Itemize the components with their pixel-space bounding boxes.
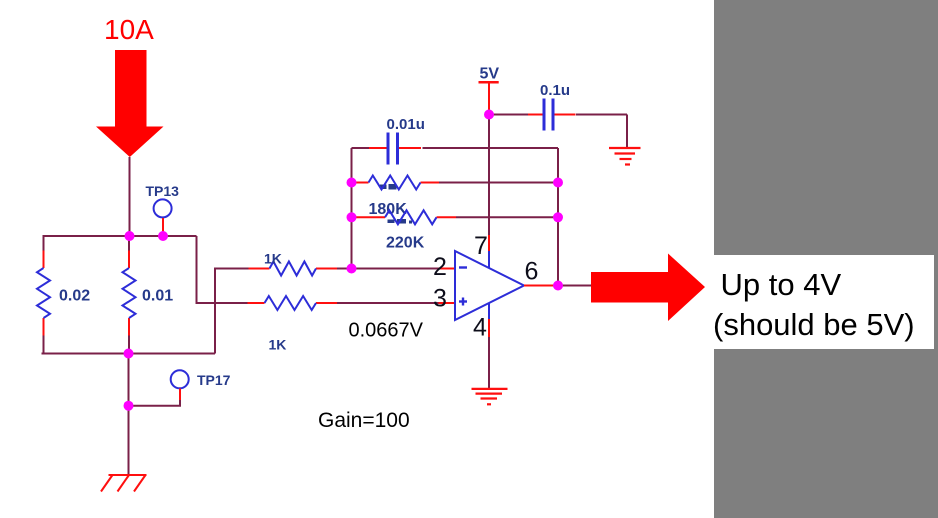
wire: node A down to pin3 run: [197, 236, 248, 303]
svg-text:0.0667V: 0.0667V: [349, 320, 424, 342]
hidden refdes under 220K: [388, 219, 413, 224]
test point TP17: [171, 370, 189, 388]
power 5V symbol: [479, 81, 499, 84]
svg-text:4: 4: [473, 314, 487, 342]
resistor R 0.02 body: [37, 268, 50, 318]
op-amp plus input mark: [459, 300, 467, 302]
TP13 stem wire: [162, 218, 164, 236]
junction right rail 220K: [553, 212, 563, 222]
resistor R 0.02 leads: [43, 236, 45, 251]
svg-text:0.1u: 0.1u: [540, 82, 570, 99]
feedback right rail: [557, 148, 559, 286]
resistor 180K leads: [352, 182, 369, 184]
TP17 stem wire: [179, 389, 181, 401]
svg-text:3: 3: [433, 285, 447, 313]
test point TP13: [154, 199, 172, 217]
svg-text:TP17: TP17: [197, 372, 231, 388]
resistor 220K body: [385, 210, 437, 224]
wire 180K to right rail: [439, 182, 558, 184]
wire 220K to right rail: [456, 216, 558, 218]
junction node B: [124, 349, 134, 359]
svg-text:180K: 180K: [369, 201, 408, 218]
wire 5V rail down to pin 7: [488, 115, 490, 236]
svg-text:(should be 5V): (should be 5V): [713, 307, 915, 342]
feedback left rail: [351, 148, 353, 269]
junction left rail 180K: [347, 178, 357, 188]
annotation white band: [714, 255, 934, 349]
svg-text:Gain=100: Gain=100: [318, 409, 410, 432]
wire: node B up to pin2 run: [215, 269, 249, 354]
svg-text:0.01: 0.01: [142, 288, 173, 305]
earth ground (right of 0.1u): [609, 148, 641, 165]
gray side panel: [714, 0, 938, 518]
svg-text:7: 7: [474, 232, 488, 260]
output arrow (red right arrow): [591, 254, 705, 322]
junction right rail 180K: [553, 178, 563, 188]
wire: bottom bus to chassis ground: [128, 354, 130, 475]
op-amp U1: [455, 251, 524, 320]
svg-text:Up to 4V: Up to 4V: [721, 267, 842, 302]
svg-text:0.01u: 0.01u: [387, 116, 425, 133]
wire: arrow to top bus: [129, 157, 131, 236]
junction output node: [553, 281, 563, 291]
wire: 1K to node and pin 2: [337, 268, 439, 270]
wire: bottom bus node B: [42, 353, 216, 355]
pin 4 wire to ground: [488, 303, 490, 319]
resistor 180K body: [369, 176, 421, 190]
resistor 1K (non-inverting input) leads: [248, 302, 265, 304]
capacitor C 0.01u wires: [352, 147, 370, 149]
input arrow 10A (red down arrow): [96, 50, 164, 157]
svg-text:1K: 1K: [264, 251, 282, 267]
resistor 1K (non-inverting) body: [265, 296, 317, 310]
wire: 1K to pin 3: [337, 302, 439, 304]
resistor R 0.01 body: [123, 268, 136, 318]
capacitor C 0.01u plates: [387, 133, 390, 165]
svg-text:0.02: 0.02: [59, 288, 90, 305]
junction node A arrow: [125, 231, 135, 241]
capacitor C 0.1u plates: [543, 99, 546, 131]
junction node A TP13: [158, 231, 168, 241]
resistor 1K (inverting) body: [270, 262, 317, 276]
svg-text:10A: 10A: [104, 14, 154, 45]
hidden refdes under 180K: [380, 184, 397, 190]
op-amp output wire pin 6: [524, 285, 553, 287]
capacitor C 0.1u wires: [489, 114, 528, 116]
junction inverting node: [347, 264, 357, 274]
junction TP17: [124, 401, 134, 411]
svg-text:6: 6: [525, 258, 539, 286]
chassis ground: [101, 475, 147, 492]
junction left rail 220K: [347, 212, 357, 222]
svg-text:TP13: TP13: [146, 183, 180, 199]
svg-text:1K: 1K: [269, 337, 287, 353]
op-amp minus input mark: [459, 266, 467, 268]
resistor 1K (inverting input) leads: [249, 268, 270, 270]
wire: top bus node A: [43, 235, 197, 237]
svg-text:5V: 5V: [480, 66, 500, 83]
resistor R 0.01 leads: [128, 236, 130, 251]
wire 0.1u to ground: [626, 115, 628, 148]
resistor 220K leads: [352, 216, 386, 218]
junction 5V node: [484, 110, 494, 120]
svg-text:220K: 220K: [386, 235, 425, 252]
svg-text:2: 2: [433, 253, 447, 281]
earth ground (below op-amp): [472, 389, 508, 404]
